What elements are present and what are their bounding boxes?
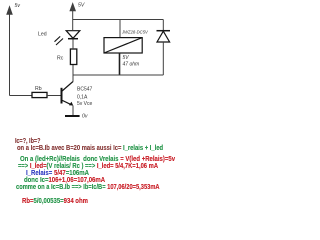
LED D1 — [55, 31, 80, 45]
transistor Q1 BC547 — [62, 82, 74, 106]
svg-text:0,1A: 0,1A — [77, 95, 88, 101]
wire left rail to Rb — [10, 95, 33, 97]
resistor Rb — [32, 92, 47, 97]
svg-text:5V: 5V — [123, 55, 130, 61]
svg-text:47 ohm: 47 ohm — [123, 62, 140, 68]
annotation line 5 — [26, 170, 89, 177]
svg-text:5v: 5v — [15, 3, 21, 9]
power +5V center arrow — [70, 4, 75, 20]
annotation line 3 — [20, 156, 175, 163]
svg-text:Led: Led — [38, 32, 47, 38]
power +5v left arrow — [7, 7, 12, 96]
wire LED anode to rail — [72, 20, 74, 31]
annotation line 8 — [22, 198, 88, 205]
annotation line 1 — [15, 138, 40, 145]
svg-text:JWZ28-DC5V: JWZ28-DC5V — [121, 30, 149, 35]
label BC547 0,1A 5v Vce — [77, 87, 93, 107]
relay K1 coil — [104, 38, 142, 53]
svg-text:BC547: BC547 — [77, 87, 93, 93]
svg-text:Rb: Rb — [35, 86, 42, 92]
wire collector net horizontal — [73, 74, 163, 76]
wire top rail — [73, 19, 164, 21]
wire LED cathode to Rc — [72, 39, 74, 49]
ground — [65, 115, 80, 117]
svg-text:5V: 5V — [78, 3, 85, 9]
label 5V 47 ohm (relay values) — [123, 55, 140, 68]
annotation line 6 — [24, 177, 105, 184]
wire emitter to ground — [72, 106, 74, 116]
annotation line 7 — [16, 184, 160, 191]
wire collector up to Rc — [72, 65, 74, 82]
svg-text:0v: 0v — [82, 114, 88, 120]
annotation line 2 — [17, 145, 163, 152]
wire rail to relay coil top — [119, 20, 121, 38]
diode D2 flyback — [157, 20, 171, 76]
resistor Rc — [70, 49, 76, 65]
wire relay coil bottom to collector net — [119, 53, 121, 75]
svg-text:5v Vce: 5v Vce — [77, 101, 93, 107]
annotation line 4 — [18, 163, 158, 170]
wire Rb to base — [47, 95, 61, 97]
svg-text:Rc: Rc — [57, 56, 64, 62]
